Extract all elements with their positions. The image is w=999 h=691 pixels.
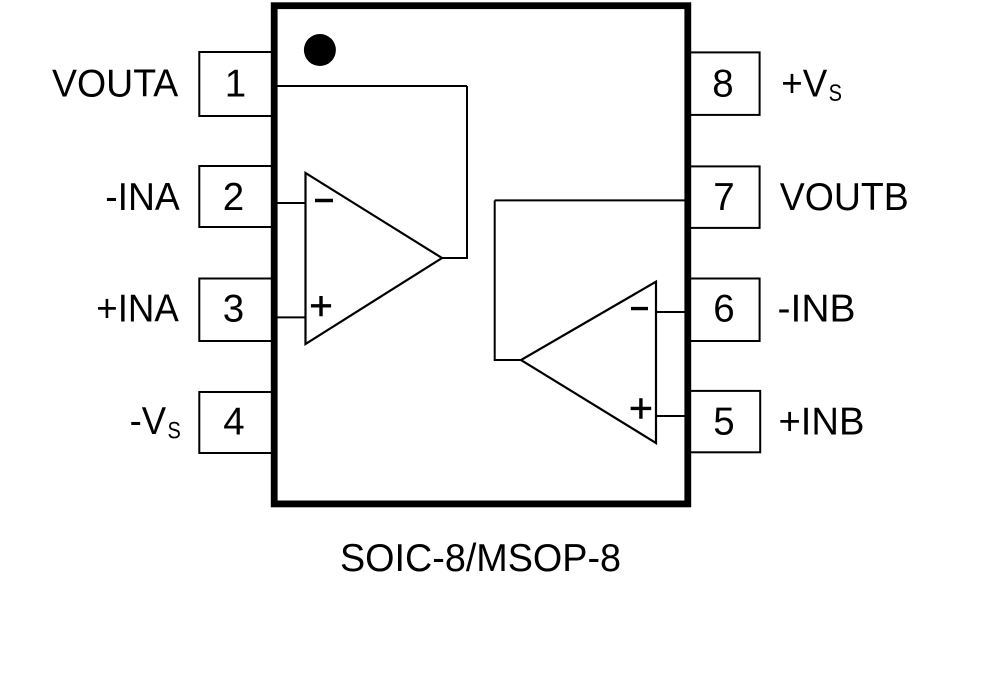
wire op-amp B output stub (494, 359, 522, 361)
svg-text:VOUTB: VOUTB (780, 176, 909, 219)
svg-text:+INA: +INA (96, 288, 179, 331)
pin 5 box (688, 391, 760, 452)
svg-text:VOUTA: VOUTA (52, 62, 179, 105)
pin 1 marker dot (304, 34, 336, 66)
svg-text:+V: +V (781, 63, 827, 106)
svg-text:4: 4 (223, 401, 244, 444)
pin 7 box (688, 166, 760, 228)
op-amp A triangle (306, 173, 443, 344)
svg-text:8: 8 (712, 62, 733, 105)
op-amp B plus sign (631, 398, 652, 419)
svg-text:-V: -V (130, 400, 167, 443)
svg-text:+INB: +INB (779, 401, 865, 444)
svg-text:S: S (168, 418, 181, 445)
svg-text:3: 3 (223, 287, 244, 330)
wire pin6 to op-amp B inverting input (656, 311, 688, 313)
wire pin5 to op-amp B non-inverting input (656, 415, 688, 417)
svg-text:6: 6 (713, 287, 734, 330)
pin 2 box (199, 166, 274, 227)
op-amp B triangle (521, 282, 656, 443)
IC package body U1 (274, 6, 688, 504)
wire op-amp B output vertical (494, 200, 496, 360)
wire pin3 to op-amp A non-inverting input (274, 316, 306, 318)
svg-text:-INA: -INA (105, 176, 180, 219)
op-amp A plus sign (311, 296, 331, 316)
wire pin7 to op-amp B output (horizontal) (495, 199, 688, 201)
op-amp B minus sign (631, 307, 648, 310)
svg-text:2: 2 (223, 176, 244, 219)
wire op-amp A output stub (441, 257, 468, 259)
wire op-amp A output vertical (466, 86, 468, 258)
svg-text:-INB: -INB (778, 287, 856, 330)
svg-text:1: 1 (225, 62, 246, 105)
pin 4 box (199, 392, 274, 453)
pin 1 box (199, 52, 274, 116)
svg-text:SOIC-8/MSOP-8: SOIC-8/MSOP-8 (340, 537, 621, 580)
wire pin2 to op-amp A inverting input (274, 202, 306, 204)
op-amp A minus sign (315, 199, 333, 202)
svg-text:5: 5 (713, 401, 734, 444)
wire pin1 to op-amp A output (horizontal top) (274, 85, 467, 87)
pin 8 box (688, 52, 760, 115)
pin 3 box (199, 279, 274, 342)
pin 6 box (688, 279, 760, 342)
svg-text:S: S (829, 80, 842, 107)
svg-text:7: 7 (713, 176, 734, 219)
